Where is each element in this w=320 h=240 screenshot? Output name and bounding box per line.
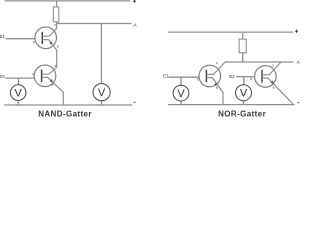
voltmeter V1 — [10, 85, 26, 101]
svg-text:NOR-Gatter: NOR-Gatter — [218, 110, 266, 118]
svg-text:b: b — [32, 73, 34, 77]
svg-text:A: A — [133, 22, 137, 28]
svg-text:b: b — [197, 78, 199, 82]
wire E1 input — [6, 38, 35, 40]
resistor R1 — [53, 7, 58, 22]
wire bottom rail — [168, 104, 294, 106]
voltmeter V2 — [93, 84, 110, 101]
transistor T4 — [255, 62, 294, 104]
wire output A line — [225, 61, 293, 63]
svg-text:V: V — [15, 87, 23, 99]
svg-text:e: e — [273, 86, 275, 90]
resistor R2 — [239, 39, 246, 53]
voltmeter V4 — [236, 85, 252, 101]
wire resistor top stub — [56, 1, 58, 7]
wire top supply rail — [168, 31, 293, 33]
wire E2 input — [6, 77, 35, 79]
wire V4 bottom stub — [243, 101, 245, 105]
wire V1 bottom stub — [17, 100, 19, 105]
svg-text:e: e — [52, 83, 54, 87]
wire V3 top stub — [180, 77, 182, 85]
svg-text:NAND-Gatter: NAND-Gatter — [38, 110, 92, 118]
label + (top right) — [295, 30, 298, 33]
wire resistor top stub — [242, 32, 244, 39]
wire vertical from A line to voltmeter V2 — [100, 24, 102, 84]
svg-text:c: c — [54, 23, 56, 27]
wire V2 bottom stub — [101, 101, 103, 105]
svg-text:E1: E1 — [0, 34, 5, 39]
wire E2 input — [236, 76, 255, 78]
svg-text:V: V — [240, 88, 248, 100]
svg-text:E2: E2 — [229, 74, 235, 79]
transistor T1 — [35, 24, 57, 68]
wire V3 bottom stub — [180, 101, 182, 105]
svg-text:e: e — [216, 86, 218, 90]
svg-text:V: V — [177, 88, 185, 100]
svg-text:A: A — [297, 60, 300, 66]
transistor T2 — [34, 65, 63, 105]
label - (bottom right) — [297, 102, 299, 104]
label + (top right) — [133, 0, 136, 3]
wire resistor bottom stub — [242, 53, 244, 62]
wire top supply rail — [5, 0, 131, 2]
svg-text:E2: E2 — [0, 74, 5, 79]
wire output A line — [57, 23, 132, 25]
wire V1 top stub — [17, 78, 19, 85]
svg-text:c: c — [272, 63, 274, 67]
svg-text:E1: E1 — [163, 74, 169, 79]
svg-text:V: V — [98, 87, 106, 99]
svg-text:e: e — [57, 44, 59, 48]
wire resistor bottom stub — [56, 22, 58, 24]
voltmeter V3 — [173, 85, 189, 101]
wire E1 input — [169, 76, 200, 78]
wire bottom rail — [4, 104, 132, 106]
svg-text:c: c — [55, 64, 57, 68]
wire V4 top stub — [243, 77, 245, 85]
svg-text:b: b — [250, 77, 252, 81]
label - (bottom right) — [134, 101, 136, 103]
transistor T3 — [199, 62, 225, 105]
svg-text:c: c — [216, 61, 218, 65]
svg-text:b: b — [33, 40, 35, 44]
